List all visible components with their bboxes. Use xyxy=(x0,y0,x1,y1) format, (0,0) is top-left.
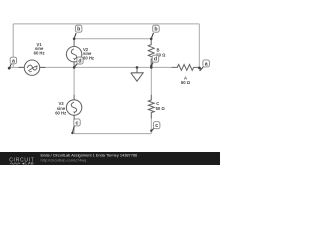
svg-text:c: c xyxy=(155,123,158,129)
svg-text:http://circuitlab.com/c74wq: http://circuitlab.com/c74wq xyxy=(41,158,87,163)
svg-text:b: b xyxy=(77,27,80,33)
svg-text:LAB: LAB xyxy=(25,161,34,165)
svg-text:a: a xyxy=(12,58,15,64)
svg-text:50 Ω: 50 Ω xyxy=(156,106,166,111)
svg-text:a: a xyxy=(205,61,208,67)
svg-text:60 Hz: 60 Hz xyxy=(83,55,94,60)
svg-text:50 Ω: 50 Ω xyxy=(181,80,191,85)
svg-text:d: d xyxy=(78,58,81,64)
svg-text:d: d xyxy=(154,57,157,63)
svg-text:60 Hz: 60 Hz xyxy=(34,50,45,55)
svg-text:b: b xyxy=(154,27,157,33)
svg-text:60 Hz: 60 Hz xyxy=(55,111,66,116)
svg-text:c: c xyxy=(76,120,79,126)
